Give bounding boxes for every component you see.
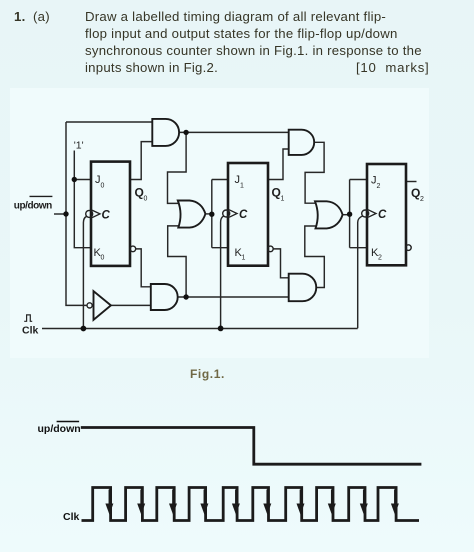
svg-text:Clk: Clk — [63, 511, 80, 523]
svg-text:1: 1 — [242, 255, 246, 262]
svg-text:2: 2 — [378, 255, 382, 262]
svg-text:0: 0 — [144, 196, 148, 203]
svg-text:0: 0 — [101, 255, 105, 262]
svg-text:up/down: up/down — [38, 423, 81, 435]
svg-text:1: 1 — [281, 196, 285, 203]
svg-text:Q: Q — [272, 185, 281, 199]
svg-text:C: C — [239, 209, 248, 221]
svg-text:C: C — [378, 209, 387, 221]
svg-text:2: 2 — [377, 183, 381, 190]
svg-text:2: 2 — [420, 196, 424, 203]
svg-text:1: 1 — [240, 183, 244, 190]
svg-text:0: 0 — [101, 183, 105, 190]
svg-text:C: C — [102, 209, 111, 221]
svg-text:Q: Q — [135, 185, 144, 199]
svg-text:up/down: up/down — [14, 200, 52, 211]
svg-text:Clk: Clk — [22, 325, 39, 337]
svg-text:'1': '1' — [74, 140, 84, 152]
svg-text:Q: Q — [411, 186, 420, 200]
